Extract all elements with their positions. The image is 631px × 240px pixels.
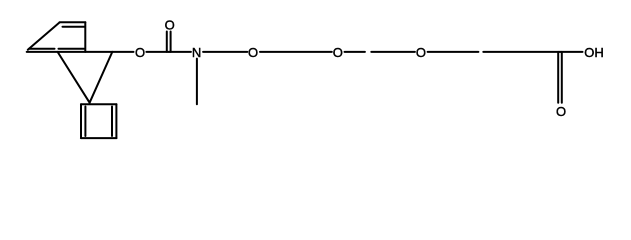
wire five-ring left bond [58,52,90,103]
wire square bottom bond [81,137,116,139]
wire bond segment to O4 [371,51,415,53]
wire carboxyl double bond line 1 [557,52,559,103]
wire bond carbonyl C to N [169,51,191,53]
svg-text:O: O [333,45,343,60]
wire bond N to O2 [203,51,247,53]
wire carbonyl double bond line 2 [170,32,172,52]
wire benzene slant bond [28,22,60,49]
wire carboxyl double bond line 2 [561,52,563,103]
svg-text:N: N [192,45,201,60]
wire square top bond [81,103,116,105]
svg-text:O: O [248,45,258,60]
svg-text:O: O [556,104,566,119]
wire bond ester O to carbonyl C [146,51,169,53]
wire long bottom bond [27,51,113,53]
wire bond C to ester O [112,51,133,53]
wire bond O2 to O3 [260,51,332,53]
wire benzene top inner double line [63,26,85,28]
wire N methyl bond [196,59,198,105]
svg-text:O: O [416,45,426,60]
svg-text:O: O [135,45,145,60]
wire five-ring right bond [90,52,113,103]
wire square left bond [80,104,82,138]
svg-text:O: O [165,17,175,32]
wire benzene top bond [60,21,86,23]
wire bond carboxyl C to OH [560,51,583,53]
wire bottom inner dash 2 [59,48,85,50]
wire bond O4 right segment [428,51,479,53]
wire carbonyl double bond line 1 [166,32,168,52]
wire bottom inner dash 1 [29,48,55,50]
wire square inner left double line [84,107,86,137]
svg-text:OH: OH [584,45,604,60]
wire bond O3 right segment [345,51,365,53]
wire benzene right bond [84,22,86,52]
wire bond segment to carboxyl C [483,51,560,53]
wire square inner right double line [111,107,113,137]
wire square right bond [115,104,117,138]
